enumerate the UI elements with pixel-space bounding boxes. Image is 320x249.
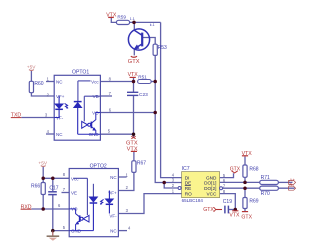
svg-text:7: 7	[63, 187, 66, 192]
node VTX rail	[132, 80, 136, 84]
svg-text:VTX: VTX	[229, 213, 240, 219]
svg-text:C23: C23	[139, 92, 148, 98]
svg-text:R51: R51	[138, 74, 147, 79]
wire chip DO2 row to R70	[223, 187, 260, 189]
wire R70 to port B	[278, 187, 294, 189]
OPTO1 output stage	[78, 113, 101, 135]
OPTO1 photodiode	[74, 102, 82, 135]
svg-text:R70: R70	[261, 191, 270, 197]
wire R71 to port A	[278, 181, 292, 183]
wire +5V2 to vcc row	[42, 167, 44, 179]
svg-text:2: 2	[172, 183, 175, 188]
svg-text:4: 4	[128, 225, 131, 230]
wire C19 right to VTX node	[229, 209, 235, 211]
node C17 top	[51, 177, 55, 181]
svg-text:Vcc: Vcc	[71, 176, 79, 181]
svg-text:GTX: GTX	[241, 214, 252, 220]
svg-text:R68: R68	[249, 167, 258, 173]
power port +5V (OPTO1)	[27, 64, 36, 70]
node DO2	[243, 186, 247, 190]
node R51 right	[153, 80, 157, 84]
power port GTX (R69)	[241, 212, 252, 221]
svg-text:C17: C17	[49, 185, 58, 191]
svg-text:DE: DE	[185, 180, 192, 185]
node GND corner junction	[132, 132, 136, 136]
node DE tie	[162, 181, 166, 185]
wire DE to RE tie	[164, 183, 178, 189]
svg-text:R69: R69	[249, 198, 258, 204]
svg-text:+5V: +5V	[38, 161, 47, 167]
wire R67 to OPTO2 pin2	[118, 172, 133, 190]
port A+	[289, 178, 296, 185]
svg-text:GTX: GTX	[128, 59, 140, 65]
wire R60 to VF+ pin2	[31, 93, 54, 96]
wire OPTO2 pin4 stub	[118, 230, 127, 232]
power port VTX (top)	[106, 12, 117, 18]
svg-text:RE: RE	[185, 186, 192, 191]
svg-text:NC: NC	[56, 132, 63, 137]
wire chip DO1 row to R71	[220, 181, 260, 183]
wire top row from R59 to DI drop	[111, 18, 116, 23]
wire VTX to R67	[133, 152, 135, 161]
wire OPTO1 pin8 row	[100, 81, 133, 83]
resistor R70	[260, 186, 279, 197]
port B-	[289, 183, 296, 191]
node RXD junction	[41, 207, 45, 211]
svg-text:1.1: 1.1	[130, 17, 135, 21]
resistor R69	[243, 198, 259, 209]
wire OPTO1 pin4 stub	[46, 133, 54, 135]
svg-text:1: 1	[172, 189, 175, 194]
svg-text:Vcc: Vcc	[91, 80, 99, 85]
node VO row	[153, 111, 157, 115]
svg-text:R59: R59	[117, 15, 126, 20]
svg-text:NC: NC	[56, 80, 63, 85]
resistor R68	[243, 165, 259, 177]
wire collector up	[133, 22, 135, 30]
wire R66 column	[42, 178, 44, 209]
wire C17 column	[52, 178, 54, 230]
svg-text:GTX: GTX	[230, 167, 241, 173]
wire base of Q1	[143, 38, 155, 45]
power port VTX (bottom)	[229, 211, 240, 219]
OPTO2 lightning	[100, 199, 103, 204]
wire R68 column	[244, 157, 246, 183]
wire VTX node to R51	[133, 78, 135, 82]
svg-text:5: 5	[63, 225, 66, 230]
power port GTX (chip gnd)	[230, 167, 241, 173]
OPTO2 photodiode	[90, 197, 98, 231]
wire OPTO2 pin8 row	[43, 177, 69, 179]
resistor R67	[132, 161, 146, 173]
svg-text:GTX: GTX	[203, 207, 214, 213]
wire DI vertical long	[161, 22, 182, 177]
OPTO2 LED	[106, 191, 113, 214]
svg-text:DO[2]: DO[2]	[204, 186, 216, 191]
wire RO to OPTO2 pin3	[118, 194, 181, 214]
power port GTX (OPTO1 gnd)	[131, 136, 135, 139]
power port GTX (emitter)	[128, 56, 140, 65]
svg-text:GTX: GTX	[126, 140, 138, 146]
port RXD	[21, 204, 32, 210]
svg-text:VE: VE	[71, 191, 77, 196]
transistor Q1	[128, 29, 149, 50]
svg-text:R53: R53	[158, 45, 167, 51]
wire OPTO1 pin6 row VO	[100, 112, 155, 114]
wire OPTO1 pin5 GND row	[100, 134, 133, 137]
wire chip VCC to VTX node	[220, 194, 236, 210]
power port VTX (mid rail)	[128, 72, 139, 78]
svg-text:C19: C19	[223, 199, 232, 205]
svg-text:3: 3	[126, 208, 129, 213]
svg-text:5: 5	[108, 128, 111, 133]
svg-text:RO: RO	[185, 191, 192, 196]
svg-text:OPTO1: OPTO1	[72, 70, 89, 76]
wire TXD to pin3	[21, 117, 54, 119]
optocoupler OPTO1	[54, 70, 100, 141]
svg-text:3: 3	[45, 112, 48, 117]
node DO1	[243, 181, 247, 185]
svg-text:NC: NC	[110, 175, 117, 180]
wire OPTO1 pin1 stub	[46, 81, 54, 83]
wire C23 column	[133, 82, 135, 135]
svg-text:NC: NC	[110, 229, 117, 234]
OPTO2 output stage	[69, 209, 93, 231]
ground symbol	[47, 231, 60, 241]
svg-text:k.1: k.1	[150, 23, 155, 27]
svg-text:R60: R60	[34, 81, 43, 87]
capacitor C23	[127, 92, 148, 98]
OPTO1 LED	[54, 96, 63, 117]
wire +5V to R60	[30, 71, 32, 82]
wire chip GND pin to GTX	[220, 173, 234, 177]
node C19/VTX	[234, 208, 238, 212]
port TXD	[11, 113, 22, 119]
power port VTX (to R67)	[127, 147, 138, 153]
wire emitter down	[133, 49, 135, 56]
svg-text:+5V: +5V	[27, 64, 36, 70]
svg-text:VF+: VF+	[56, 94, 65, 99]
wire RXD row pin6	[31, 208, 69, 210]
OPTO2 receiver rail	[74, 178, 94, 215]
svg-text:6: 6	[58, 203, 61, 208]
svg-text:VF-: VF-	[109, 213, 117, 218]
power port GTX (C19 left)	[203, 207, 222, 213]
capacitor C19	[223, 199, 232, 214]
resistor R66	[31, 183, 45, 195]
wire OPTO2 pin5 GND row	[53, 230, 69, 232]
svg-text:4: 4	[47, 129, 50, 134]
svg-text:R66: R66	[31, 184, 40, 190]
svg-text:65LBC184: 65LBC184	[182, 198, 204, 203]
resistor R60	[29, 81, 43, 93]
node GND wire junction	[51, 229, 55, 233]
resistor R51	[138, 74, 152, 83]
wire OPTO1 pin7 stub	[100, 95, 112, 97]
wire OPTO2 pin7 stub	[62, 192, 70, 194]
node junction at R59/collector	[132, 21, 136, 25]
optocoupler OPTO2	[69, 164, 118, 237]
svg-text:VCC: VCC	[206, 191, 217, 196]
resistor R53	[153, 44, 167, 55]
svg-text:8: 8	[63, 172, 66, 177]
resistor R59	[116, 15, 129, 25]
svg-text:1: 1	[126, 172, 129, 177]
OPTO1 receiver rail	[78, 81, 101, 122]
svg-text:2: 2	[126, 185, 129, 190]
wire R53 down long to DE	[155, 55, 181, 182]
power port +5V (OPTO2)	[38, 161, 47, 167]
wire R69 column	[244, 188, 246, 211]
capacitor C17	[48, 185, 59, 194]
node +5V row	[41, 177, 45, 181]
svg-text:DO[1]: DO[1]	[204, 180, 216, 185]
chip IC7	[178, 166, 222, 203]
svg-text:R67: R67	[137, 161, 146, 167]
power port VTX (R68)	[242, 151, 253, 157]
svg-text:B-: B-	[289, 183, 294, 188]
OPTO1 lightning	[65, 103, 68, 108]
wire OPTO2 pin1 stub	[118, 176, 126, 178]
resistor R71	[260, 175, 279, 185]
